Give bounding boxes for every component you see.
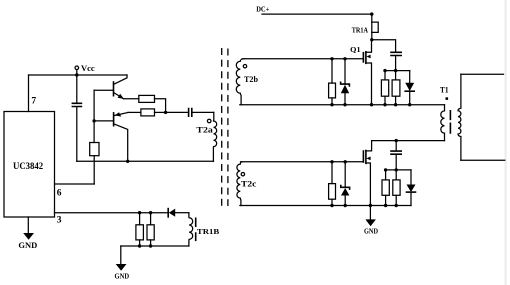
wire T2b bottom rail (240, 104, 445, 106)
resistor R2 (141, 109, 166, 116)
wire PNP emitter to R2 (128, 111, 141, 113)
transformer T1 primary winding (441, 105, 445, 141)
svg-text:GND: GND (115, 273, 130, 281)
node zener Z1 top (343, 57, 346, 60)
resistor R10 (382, 170, 389, 206)
resistor R9 (gate) (329, 162, 336, 206)
svg-text:T2c: T2c (241, 180, 257, 189)
resistor R1 (139, 95, 166, 112)
wire emitter to R1 (124, 98, 139, 100)
svg-text:UC3842: UC3842 (13, 161, 44, 171)
svg-text:7: 7 (31, 97, 36, 107)
wire pin3 network bottom (121, 245, 189, 247)
resistor R8 (392, 71, 400, 105)
diode V7 (snubber) (407, 170, 416, 206)
wire load bottom (461, 159, 505, 161)
wire pin 6 (55, 183, 95, 185)
svg-text:GND: GND (18, 241, 37, 250)
ground (pin3 network) (115, 246, 130, 281)
Vcc rail wire (29, 74, 128, 76)
node R9 top (330, 160, 333, 163)
node R3 bottom (138, 244, 141, 247)
svg-text:T1: T1 (440, 86, 449, 95)
wire load top (461, 73, 504, 75)
transformer T2c winding (237, 162, 257, 206)
ground (under UC3842) (18, 217, 37, 250)
svg-text:3: 3 (57, 215, 62, 225)
wire DC+ rail (262, 13, 372, 15)
capacitor C4 (snubber) (391, 52, 401, 70)
wire pin 3 (55, 212, 168, 214)
diode V3 (pin3 line) (168, 209, 189, 217)
node snubber2 R10 (384, 168, 387, 171)
transformer TR1A primary (352, 14, 378, 40)
svg-text:6: 6 (57, 188, 62, 198)
transistor V1 NPN (upper driver) (94, 75, 127, 99)
node T1 phase dot (446, 97, 449, 100)
node R1/R2 junction (164, 111, 167, 114)
svg-text:Vcc: Vcc (81, 63, 95, 73)
node snubber2 cap top (395, 139, 398, 142)
node Vcc junction (75, 73, 78, 76)
diode V5 (snubber) (405, 71, 414, 105)
pin 7 wire (28, 75, 30, 112)
node R4 top (149, 211, 152, 214)
svg-text:DC+: DC+ (256, 4, 270, 13)
transformer T2b winding (236, 59, 258, 105)
zener V4 (gate clamp) (341, 59, 350, 105)
wire to coupling cap (166, 111, 189, 113)
transistor Q2 MOSFET (363, 141, 371, 206)
resistor R3 (136, 213, 144, 246)
svg-text:TR1A: TR1A (352, 27, 369, 35)
svg-text:GND: GND (364, 228, 378, 236)
transistor Q1 MOSFET (350, 40, 371, 105)
wire T2c bottom rail (240, 205, 411, 207)
wire snubber node (385, 70, 410, 72)
wire snubber2 node (386, 169, 411, 171)
node rail junctions bottom section (330, 204, 333, 207)
capacitor C1 (coupling to T2a) (189, 109, 214, 117)
transformer T2a winding (196, 112, 216, 161)
wire T2b top rail (gate) (242, 58, 363, 60)
resistor R4 (147, 213, 154, 246)
Vcc terminal (75, 63, 95, 75)
wire base bus (93, 90, 95, 142)
capacitor C3 (Vcc decoupling) (72, 75, 81, 161)
node DC+ / TR1A (370, 12, 373, 15)
svg-text:T2b: T2b (244, 75, 259, 84)
node Q1 drain junction (370, 38, 373, 41)
node zener Z2 top (344, 160, 347, 163)
resistor R5 (base) (90, 143, 99, 185)
svg-text:TR1B: TR1B (197, 227, 219, 236)
transformer T2 core (dashed) (221, 48, 223, 206)
resistor R6 (gate) (329, 59, 336, 105)
node R4 bottom (149, 244, 152, 247)
svg-text:T2a: T2a (196, 126, 212, 135)
edge artifact strip (505, 0, 507, 285)
transformer TR1B winding (189, 213, 219, 246)
node base junction (92, 119, 95, 122)
transistor V2 PNP (lower driver) (94, 112, 128, 161)
node snubber C4 (394, 69, 397, 72)
node snubber2 C5 (395, 168, 398, 171)
wire middle rail (T1 primary return) (372, 140, 445, 142)
IC U1 UC3842 (4, 112, 55, 218)
transformer T1 core (449, 111, 451, 133)
zener V6 (gate clamp) (341, 162, 350, 206)
node R3 top (138, 211, 141, 214)
wire snubber top (372, 40, 396, 52)
transformer T1 secondary winding (458, 74, 461, 160)
wire T2c top rail (gate) (241, 161, 364, 163)
resistor R11 (393, 170, 400, 206)
svg-text:Q1: Q1 (350, 45, 360, 54)
node rail junctions top section (330, 103, 333, 106)
ground (power stage) (364, 206, 378, 236)
node R6 top (330, 57, 333, 60)
capacitor C5 (snubber) (391, 141, 401, 170)
node snubber R7 (383, 69, 386, 72)
wire driver emitter rail (77, 160, 214, 162)
resistor R7 (381, 71, 388, 105)
node PNP collector junction (126, 160, 129, 163)
